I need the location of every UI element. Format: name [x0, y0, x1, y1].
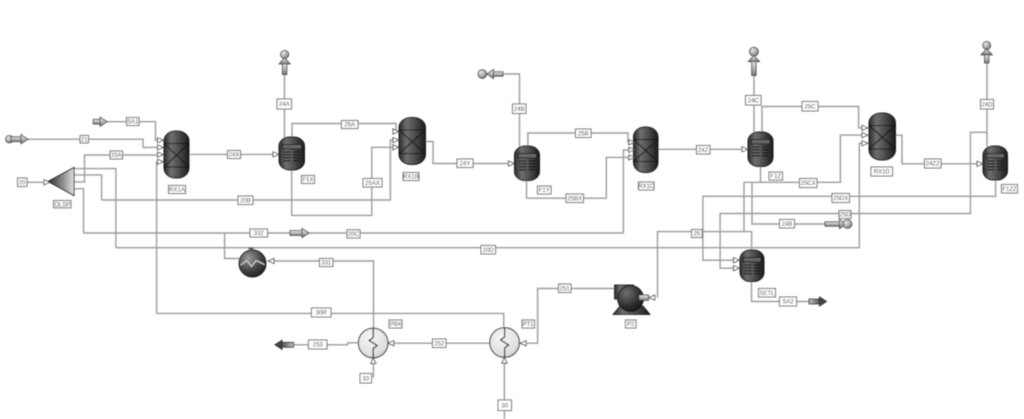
label RX1C [638, 182, 655, 190]
svg-text:F1Y: F1Y [539, 188, 550, 194]
label 25 [692, 230, 703, 238]
wire 25B line [528, 133, 630, 147]
label 33 [360, 374, 372, 384]
heat exchanger PT1 [490, 328, 520, 358]
svg-text:332: 332 [254, 231, 265, 237]
svg-text:24A: 24A [279, 102, 290, 108]
port arrow RX1A in2 [158, 145, 164, 150]
port arrow F1X in [273, 152, 279, 157]
reactor RX1B [399, 118, 426, 165]
wire 20D header [116, 143, 862, 247]
port arrow RX1B in1 [393, 129, 399, 134]
reactor RX1A [164, 131, 189, 178]
feed arrow SA1 feed [93, 117, 107, 126]
port arrow PB4 in bottom [371, 358, 376, 364]
svg-text:OLSP: OLSP [54, 202, 70, 208]
svg-text:21: 21 [81, 137, 88, 143]
splitter OLSP [48, 168, 74, 196]
port arrow RX1C in1 [629, 140, 635, 145]
label 24Z [697, 146, 711, 155]
svg-text:24X: 24X [229, 153, 240, 159]
label 332 [250, 229, 268, 237]
svg-text:20A: 20A [111, 153, 122, 159]
svg-text:25D: 25D [839, 213, 851, 219]
port arrow F1ZZ in [977, 161, 983, 166]
port arrow CL4 in [268, 258, 274, 263]
svg-text:RX1D: RX1D [874, 170, 891, 176]
wire 252 [394, 342, 491, 344]
label PT1 [522, 320, 535, 328]
drum F1Z [748, 132, 773, 167]
port arrow PB4 in right [388, 341, 394, 346]
label 24B [780, 220, 795, 229]
svg-text:24B: 24B [514, 107, 525, 113]
wire 25AX line [292, 147, 394, 215]
svg-text:20: 20 [19, 180, 26, 186]
wire 24D riser [986, 63, 988, 147]
port arrow SETL in1 [734, 258, 740, 263]
product arrow 253 product [275, 340, 294, 349]
svg-text:RX1C: RX1C [638, 184, 655, 190]
label 25DX [832, 194, 850, 203]
drum F1Y [515, 146, 540, 181]
label PB4 [389, 320, 402, 328]
label 30 [498, 400, 512, 411]
wire 33 line [372, 359, 374, 378]
svg-text:25C: 25C [804, 104, 816, 110]
wire 20 feed line [28, 181, 45, 183]
svg-text:SA2: SA2 [782, 300, 794, 306]
port arrow RX1D in3 [862, 141, 868, 146]
svg-text:SETL: SETL [759, 291, 775, 297]
wire OLSP out1 to 20D [74, 169, 116, 248]
wire 25C line [762, 107, 862, 134]
port arrow RX1A in3 [158, 152, 164, 157]
label OLSP [54, 201, 72, 209]
svg-text:24D: 24D [981, 102, 993, 108]
wire 25D line [720, 132, 987, 268]
label 30R [312, 308, 332, 317]
reactor RX1D [869, 113, 896, 160]
wire dropper to 20C [743, 182, 745, 231]
flare vent left of 24B [478, 69, 503, 78]
label 21 [80, 136, 89, 144]
label RX1A [169, 186, 186, 194]
port arrow SETL in2 [734, 266, 740, 271]
wire SA2 line [752, 281, 810, 302]
label F1ZZ [1002, 185, 1018, 194]
label SA1 [127, 118, 140, 126]
flare vent 24B flare [825, 219, 852, 228]
product arrow SA2 product [809, 297, 827, 306]
label F1X [302, 176, 315, 184]
wire 25CX line [761, 135, 862, 182]
port arrow RX1C in2 [629, 147, 635, 152]
drum F1ZZ [983, 146, 1008, 180]
label 331 [320, 259, 334, 267]
label SETL [759, 289, 776, 298]
label 25CX [800, 179, 818, 188]
port arrow OLSP inlet [44, 180, 50, 185]
label 20A [110, 151, 123, 159]
svg-text:25CX: 25CX [801, 181, 816, 187]
wire 24X [189, 153, 275, 155]
svg-text:24C: 24C [748, 98, 760, 104]
label 251 [559, 284, 572, 293]
svg-text:30R: 30R [316, 311, 328, 317]
label 25AX [363, 179, 382, 188]
feed arrow 21 feed [6, 135, 28, 144]
svg-text:25BX: 25BX [567, 196, 582, 202]
drum F1X [279, 137, 305, 170]
label F1Y [538, 186, 552, 194]
pump P2 [613, 285, 650, 315]
port arrow PT1 in right [520, 341, 526, 346]
wire 25 line [658, 232, 752, 298]
svg-text:24ZZ: 24ZZ [926, 162, 940, 168]
label 24C [746, 96, 762, 106]
svg-text:25A: 25A [344, 123, 355, 129]
heat exchanger PB4 [358, 328, 388, 358]
svg-text:PB4: PB4 [390, 322, 402, 328]
svg-text:25DX: 25DX [833, 196, 848, 202]
port arrow RX1B in2 [393, 138, 399, 143]
wire 30R line [157, 162, 504, 327]
label 20C [347, 230, 360, 238]
wire 24Z [658, 148, 745, 150]
label RX1B [403, 173, 419, 181]
svg-text:RX1B: RX1B [403, 175, 419, 181]
label 24B [513, 104, 527, 114]
svg-text:SA1: SA1 [127, 120, 139, 126]
wire 24B riser [503, 74, 520, 147]
label 25A [342, 121, 359, 129]
label 24A [277, 99, 292, 109]
drum SETL [740, 250, 764, 282]
label 24X [228, 151, 241, 159]
label 25BX [566, 194, 584, 203]
svg-text:20C: 20C [348, 232, 360, 238]
wire 20C header [84, 232, 624, 234]
label 20 [18, 178, 28, 187]
svg-text:20B: 20B [240, 198, 251, 204]
svg-text:24Z: 24Z [698, 148, 709, 154]
svg-text:30: 30 [501, 403, 508, 409]
wire 253 line [294, 343, 360, 345]
wire 20B header [102, 140, 394, 200]
wire 24ZZ line [896, 135, 979, 164]
svg-text:F1X: F1X [302, 178, 313, 184]
label 24ZZ [925, 159, 942, 168]
wire 25BX line [527, 157, 630, 198]
label 25B [576, 129, 592, 138]
wire SA1 line [107, 122, 158, 141]
svg-text:253: 253 [313, 343, 324, 349]
svg-text:25B: 25B [578, 131, 589, 137]
svg-text:252: 252 [434, 341, 445, 347]
port arrow PT1 in bottom [502, 357, 507, 363]
svg-text:331: 331 [321, 261, 332, 267]
wire riser 20C to RX1C [623, 150, 629, 233]
wire OLSP out3 to 20A [74, 155, 158, 182]
svg-text:P2: P2 [627, 322, 635, 328]
svg-text:251: 251 [560, 286, 571, 292]
svg-text:PT1: PT1 [523, 322, 535, 328]
label 24Y [457, 159, 473, 168]
flare vent above F1Z [748, 47, 759, 75]
cooler CL4 [239, 249, 266, 278]
wire 331 line [274, 261, 374, 328]
label 20B [238, 196, 253, 205]
svg-text:F1ZZ: F1ZZ [1002, 187, 1017, 193]
label SA2 [780, 297, 797, 306]
label 25C [802, 102, 818, 112]
wire OLSP out4 to 20C [74, 189, 84, 233]
wire 25A line [292, 124, 396, 139]
wire 251 line [526, 289, 615, 344]
label F1Z [769, 172, 783, 180]
flare vent above F1ZZ [981, 41, 992, 63]
wire 24Y line [426, 142, 511, 164]
wire branch to CL4 [225, 233, 241, 259]
port arrow F1Y in [509, 161, 515, 166]
svg-text:33: 33 [362, 376, 369, 382]
wire 25DX line [703, 179, 996, 260]
port arrow RX1D in2 [862, 133, 868, 138]
port arrow F1Z in [742, 147, 748, 152]
label P2 [626, 320, 637, 328]
svg-text:25AX: 25AX [365, 181, 380, 187]
wire dropper to 24B flare [752, 182, 825, 224]
port arrow RX1B in3 [393, 145, 399, 150]
reactor RX1C [634, 127, 659, 173]
port arrow RX1C in3 [629, 155, 635, 160]
label RX1D [871, 167, 893, 176]
label 252 [433, 339, 447, 348]
port arrow RX1D in1 [862, 125, 868, 130]
wire OLSP out2 to 20B [74, 175, 102, 200]
flare vent above F1X [279, 50, 290, 74]
label 20D [481, 246, 496, 255]
port arrow P2 in right [649, 295, 655, 300]
label 24D [981, 100, 994, 110]
label 25D [839, 211, 851, 219]
svg-text:25: 25 [693, 232, 700, 238]
port arrow RX1A in1 [158, 138, 164, 143]
svg-text:24Y: 24Y [460, 161, 471, 167]
svg-text:F1Z: F1Z [770, 174, 781, 180]
wire 24C riser [753, 76, 755, 134]
feed arrow 20C feed [290, 228, 309, 237]
wire 21 line [28, 139, 158, 147]
svg-text:20D: 20D [483, 248, 495, 254]
wire 30 line [503, 359, 505, 419]
label 253 [309, 340, 328, 349]
wire F1Z bottom branch left [744, 181, 761, 183]
port arrow RX1A in4 [158, 159, 164, 164]
svg-text:24B: 24B [782, 222, 793, 228]
wire 24A riser [284, 75, 286, 139]
svg-text:RX1A: RX1A [169, 188, 185, 194]
